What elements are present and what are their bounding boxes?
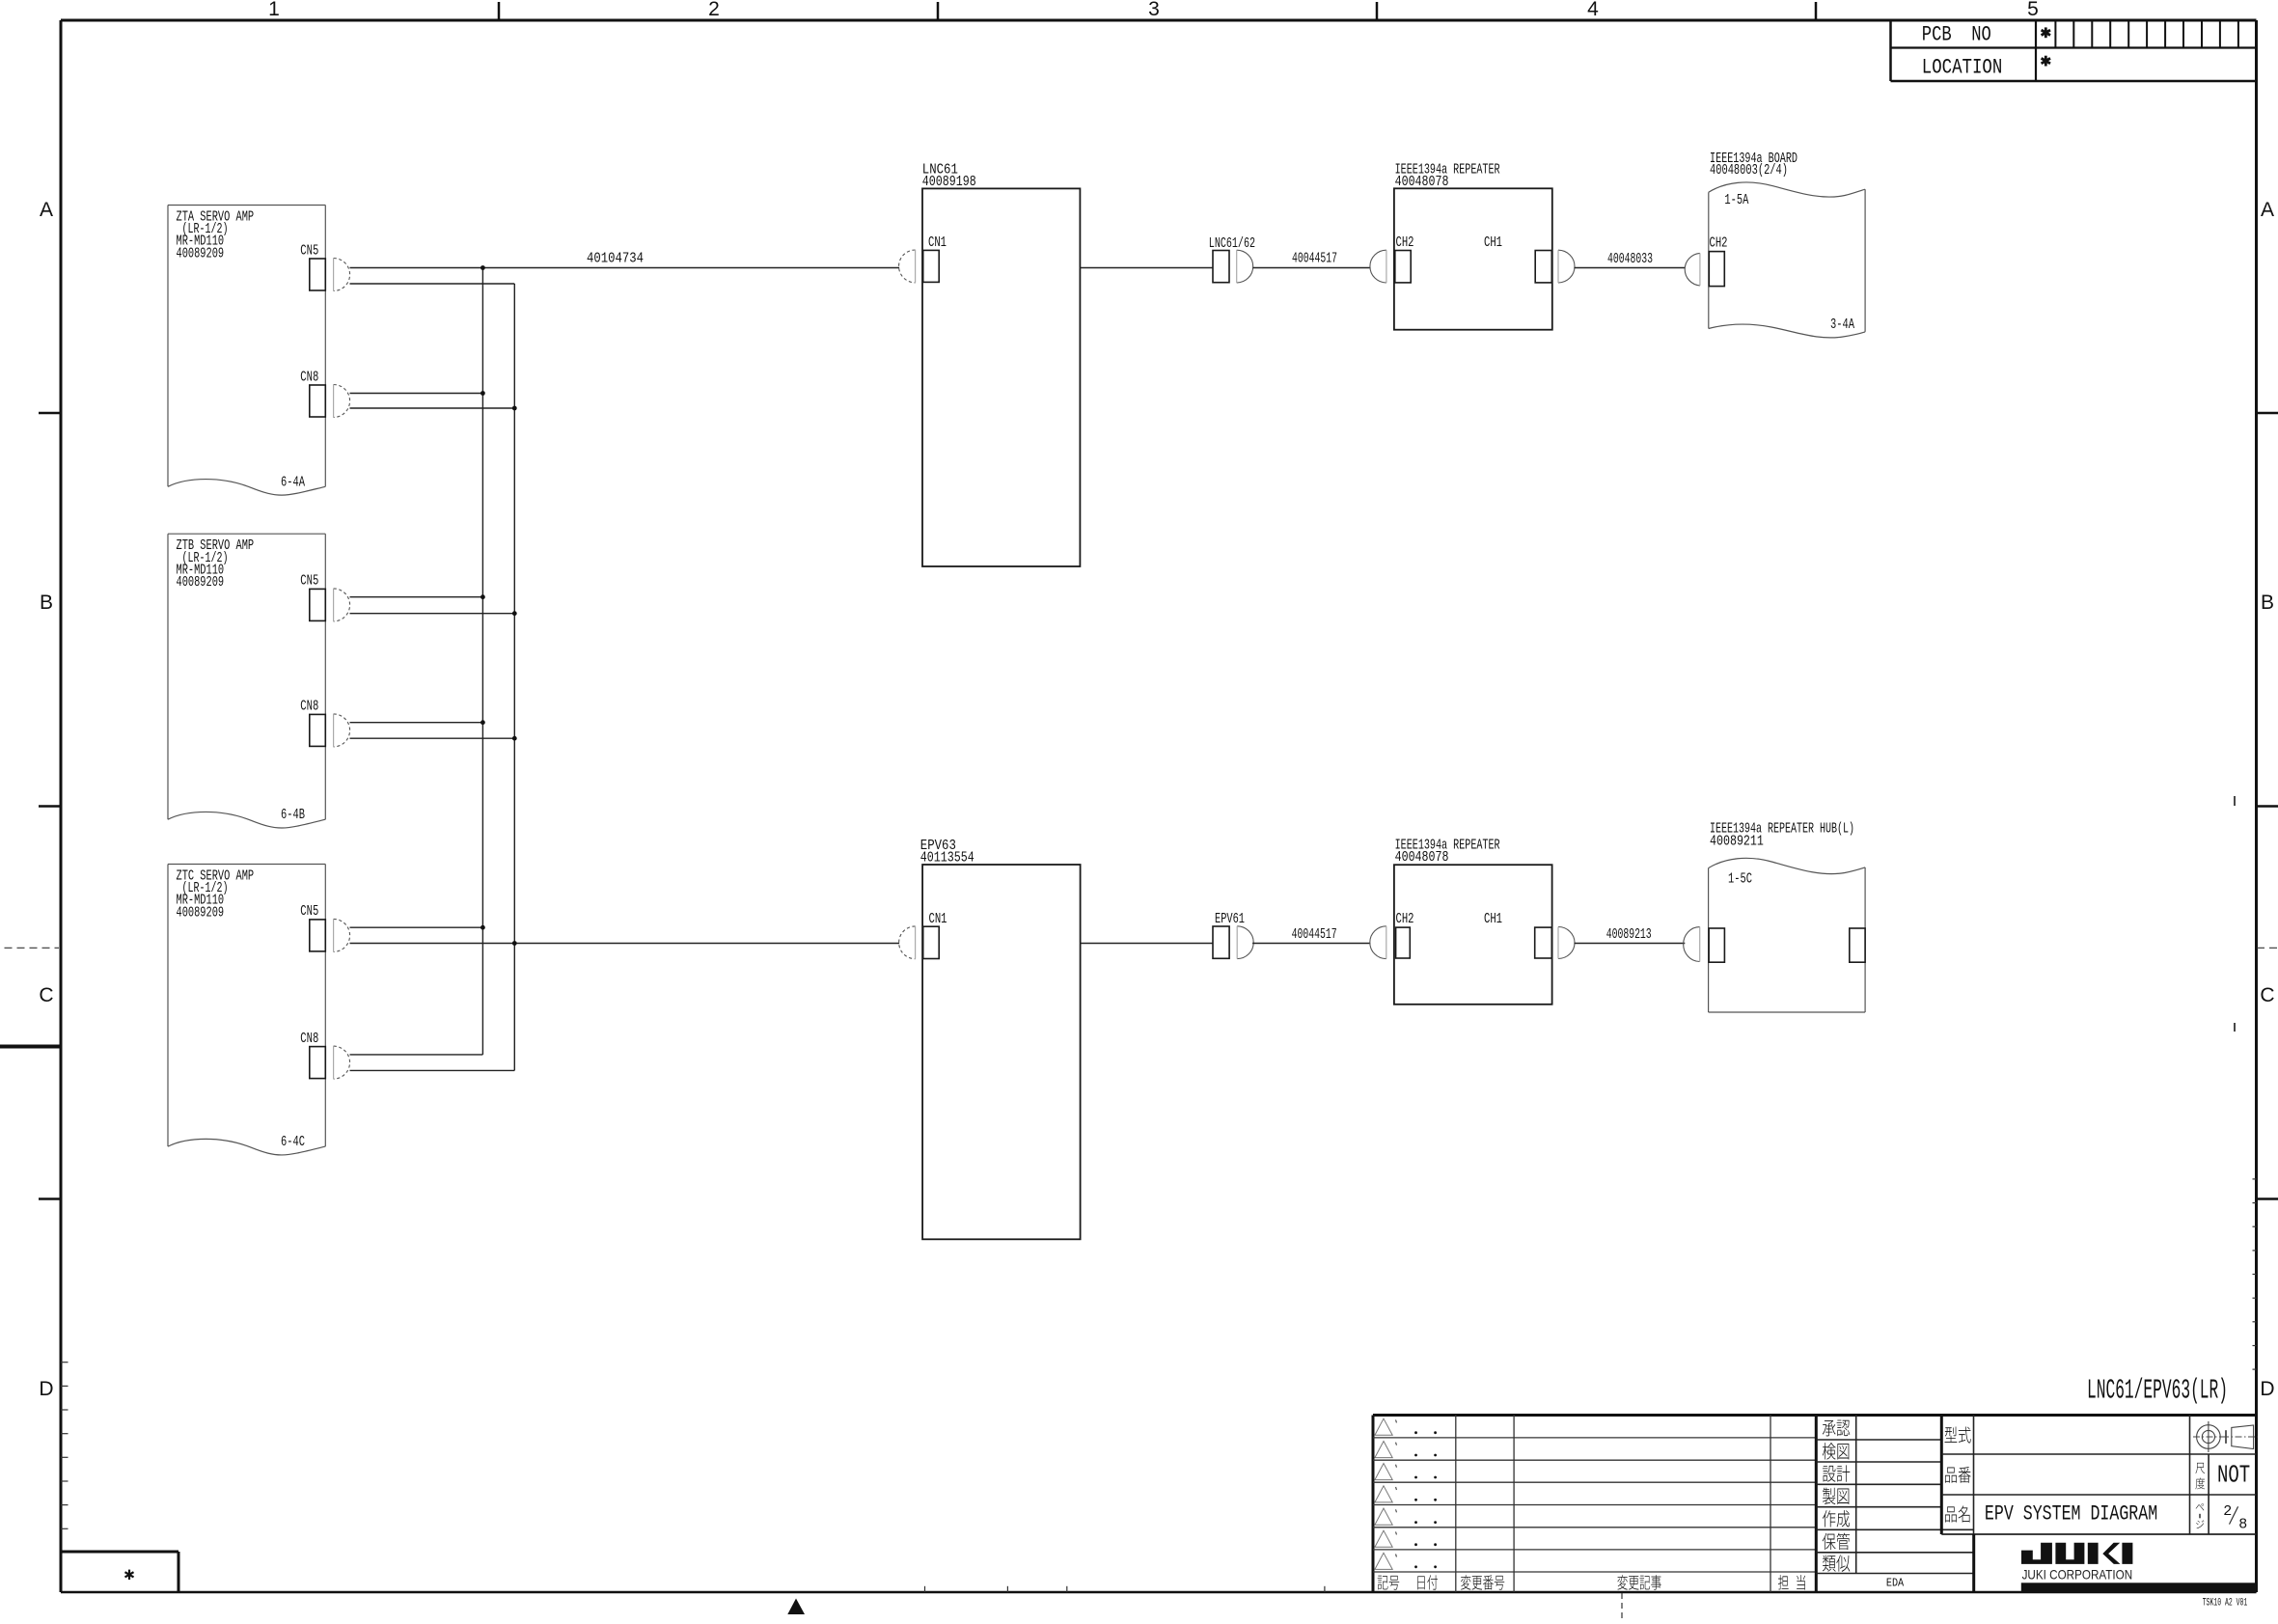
ruler graduations right edge: [2253, 1179, 2257, 1369]
connector EPV61: [1213, 926, 1253, 959]
box IEEE1394a REPEATER HUB(L) (wavy top): [1709, 858, 1866, 1012]
svg-text:D: D: [2260, 1378, 2274, 1400]
svg-text:40089209: 40089209: [177, 903, 225, 921]
ruler graduations left edge: [61, 1363, 69, 1529]
zone row letters right A-D: [2260, 199, 2274, 1400]
connector CN8: [310, 1046, 350, 1079]
connector CN5: [310, 259, 350, 291]
svg-text:EPV SYSTEM DIAGRAM: EPV SYSTEM DIAGRAM: [1985, 1502, 2157, 1527]
JUKI logo: [2021, 1543, 2132, 1564]
junction dots bus A: [480, 265, 485, 930]
zone column numbers 1-5: [268, 0, 2039, 20]
svg-text:TSK10 A2 V01: TSK10 A2 V01: [2203, 1597, 2248, 1609]
connector CN8: [310, 385, 350, 418]
wire bus vertical A: [481, 268, 483, 1055]
wire LNC61 to LNC61/62 connector: [1080, 267, 1213, 269]
svg-text:1-5C: 1-5C: [1728, 870, 1752, 888]
wire ZTC CN8 upper: [350, 1054, 483, 1056]
fold mark dashed left: [5, 947, 60, 949]
wire ZTB CN8 upper: [350, 722, 483, 724]
ruler ticks above bottom frame: [925, 1586, 1325, 1592]
revision header labels: [1378, 1575, 1805, 1590]
wire ZTC CN5 upper: [350, 926, 483, 928]
box EPV63: [922, 865, 1081, 1239]
svg-text:PCB NO: PCB NO: [1922, 23, 1991, 47]
box ZTC SERVO AMP: [168, 865, 325, 1155]
svg-text:40048003(2/4): 40048003(2/4): [1710, 161, 1788, 179]
asterisk box bottom left: [61, 1552, 178, 1592]
svg-text:CH2: CH2: [1396, 910, 1414, 927]
connector CH1 (repeater top): [1535, 250, 1575, 283]
svg-text:40089198: 40089198: [922, 173, 976, 190]
PCB NO value asterisk: [2045, 27, 2047, 38]
text ZTA SERVO AMP titles: [177, 208, 255, 262]
wire ZTA CN5 upper to LNC61 CN1 (cable 40104734): [350, 267, 900, 269]
wire cable 40089213: [1575, 943, 1686, 945]
svg-text:CN1: CN1: [929, 910, 947, 927]
wire ZTA CN5 lower: [350, 283, 515, 285]
zone column ticks top: [499, 2, 1816, 20]
projection symbol cone: [2222, 1425, 2258, 1449]
connector CN5: [310, 919, 350, 951]
box LNC61: [922, 188, 1080, 566]
wire ZTB CN5 lower: [350, 613, 515, 615]
connector CH2 (repeater top): [1395, 251, 1411, 283]
text ZTC SERVO AMP titles: [177, 867, 255, 922]
svg-text:LOCATION: LOCATION: [1922, 56, 2003, 80]
connector plug into repeater CH2 (top): [1370, 250, 1386, 283]
wire ZTC CN8 lower: [350, 1069, 515, 1071]
connector CN8: [310, 714, 350, 747]
fold mark dashed vertical bottom: [1621, 1593, 1623, 1619]
wire ZTB CN8 lower: [350, 737, 515, 739]
svg-text:40089209: 40089209: [177, 573, 225, 591]
connector CH2 (board): [1709, 252, 1724, 287]
svg-text:40089209: 40089209: [177, 244, 225, 261]
svg-text:C: C: [39, 984, 53, 1006]
wire ZTB CN5 upper: [350, 596, 483, 598]
svg-text:CH1: CH1: [1484, 910, 1502, 927]
center mark thick left: [0, 1045, 60, 1049]
connector CH1 (repeater bottom): [1535, 927, 1575, 959]
svg-text:40104734: 40104734: [587, 250, 644, 267]
text ZTB SERVO AMP titles: [177, 537, 255, 591]
box ZTA SERVO AMP: [168, 206, 325, 496]
small tick right C: [2234, 1023, 2236, 1032]
svg-text:5: 5: [2027, 0, 2039, 20]
svg-text:40113554: 40113554: [920, 849, 974, 867]
PCB NO / LOCATION table: [1891, 20, 2257, 81]
label ページ (page) vertical: [2196, 1503, 2205, 1528]
svg-text:40089213: 40089213: [1606, 925, 1652, 943]
wire ZTA CN8 lower: [350, 407, 515, 409]
svg-text:A: A: [2261, 199, 2274, 221]
zone row letters left A-D: [39, 199, 53, 1400]
connector hub left port: [1709, 928, 1724, 962]
svg-text:1-5A: 1-5A: [1724, 191, 1749, 208]
connector CN1 (EPV63): [899, 926, 940, 959]
wire ZTC CN5 lower to EPV63 CN1 (cable 40044517 trunk): [350, 943, 900, 945]
junction dots bus B: [512, 406, 517, 946]
connector plug into repeater CH2 (bottom): [1370, 926, 1386, 959]
svg-text:CN8: CN8: [300, 698, 318, 715]
revision table grid: [1373, 1416, 2257, 1593]
connector CN5: [310, 589, 350, 621]
connector CH2 (repeater bottom): [1396, 927, 1411, 958]
label 品番 (part no): [1945, 1468, 1957, 1483]
svg-text:4: 4: [1587, 0, 1599, 20]
wire EPV63 to EPV61 connector: [1081, 943, 1213, 945]
svg-text:EDA: EDA: [1886, 1578, 1904, 1590]
svg-text:CN8: CN8: [300, 1030, 318, 1047]
small tick right B/C: [2234, 796, 2236, 806]
zone row ticks left: [39, 413, 61, 1199]
connector LNC61/62: [1213, 250, 1253, 283]
JUKI cell black bar: [2021, 1583, 2257, 1593]
svg-text:LNC61/EPV63(LR): LNC61/EPV63(LR): [2087, 1375, 2228, 1407]
svg-text:CN5: CN5: [300, 572, 318, 590]
svg-text:40048078: 40048078: [1395, 848, 1449, 866]
svg-text:D: D: [39, 1378, 53, 1400]
svg-text:B: B: [40, 592, 53, 614]
connector hub right port: [1850, 928, 1865, 962]
svg-text:C: C: [2260, 984, 2274, 1006]
asterisk mark: [128, 1570, 130, 1580]
svg-text:6-4C: 6-4C: [281, 1133, 305, 1150]
projection symbol circle target: [2193, 1421, 2224, 1452]
svg-text:40044517: 40044517: [1292, 925, 1337, 943]
svg-text:2: 2: [708, 0, 720, 20]
label 品名 (part name): [1945, 1506, 1957, 1522]
page number 2/8: [2223, 1503, 2247, 1533]
svg-text:40089211: 40089211: [1710, 833, 1764, 850]
box ZTB SERVO AMP: [168, 534, 325, 828]
wire bus vertical B: [513, 284, 515, 1070]
svg-text:EPV61: EPV61: [1215, 910, 1245, 927]
wire ZTA CN8 upper: [350, 393, 483, 395]
svg-text:6-4A: 6-4A: [281, 473, 306, 490]
svg-text:40044517: 40044517: [1292, 250, 1337, 267]
svg-text:6-4B: 6-4B: [281, 806, 305, 823]
svg-text:40048033: 40048033: [1607, 250, 1653, 267]
connector plug into hub (bottom): [1684, 927, 1700, 962]
svg-text:CN8: CN8: [300, 368, 318, 385]
connector plug into board CH2: [1685, 253, 1700, 286]
svg-text:CN5: CN5: [300, 902, 318, 920]
zone row ticks right: [2257, 413, 2278, 1199]
label 型式 (model): [1944, 1426, 1957, 1442]
connector CN1 (LNC61): [899, 250, 940, 283]
svg-text:CH1: CH1: [1484, 234, 1502, 251]
box IEEE1394a BOARD (wavy): [1709, 182, 1865, 338]
svg-text:3-4A: 3-4A: [1830, 316, 1855, 333]
fold mark dashed right: [2257, 947, 2278, 949]
svg-text:8: 8: [2238, 1517, 2247, 1533]
svg-text:CH2: CH2: [1396, 234, 1414, 251]
svg-text:LNC61/62: LNC61/62: [1209, 234, 1255, 252]
svg-text:CN1: CN1: [928, 234, 947, 251]
revision rows triangles and dots: [1375, 1418, 1437, 1569]
LOCATION value asterisk: [2045, 56, 2047, 67]
product info grid: [1941, 1416, 2256, 1593]
approval table grid: [1816, 1416, 1973, 1574]
wire cable 40044517 bottom: [1252, 943, 1370, 945]
svg-text:CH2: CH2: [1710, 234, 1728, 252]
svg-text:A: A: [40, 199, 53, 221]
svg-text:40048078: 40048078: [1395, 173, 1449, 190]
svg-text:2: 2: [2223, 1503, 2232, 1520]
svg-text:JUKI CORPORATION: JUKI CORPORATION: [2022, 1567, 2133, 1583]
svg-text:1: 1: [268, 0, 280, 20]
label 尺度 (scale) vertical: [2195, 1463, 2205, 1489]
svg-text:B: B: [2261, 592, 2274, 614]
wire cable 40048033: [1575, 267, 1686, 269]
bottom centering triangle: [787, 1599, 805, 1615]
box IEEE1394a REPEATER top: [1394, 188, 1552, 329]
box IEEE1394a REPEATER bottom: [1394, 865, 1552, 1005]
svg-text:CN5: CN5: [300, 241, 318, 259]
svg-text:NOT: NOT: [2217, 1461, 2250, 1490]
wire cable 40044517 top: [1253, 267, 1371, 269]
approval labels: [1823, 1420, 1851, 1572]
svg-text:3: 3: [1148, 0, 1160, 20]
